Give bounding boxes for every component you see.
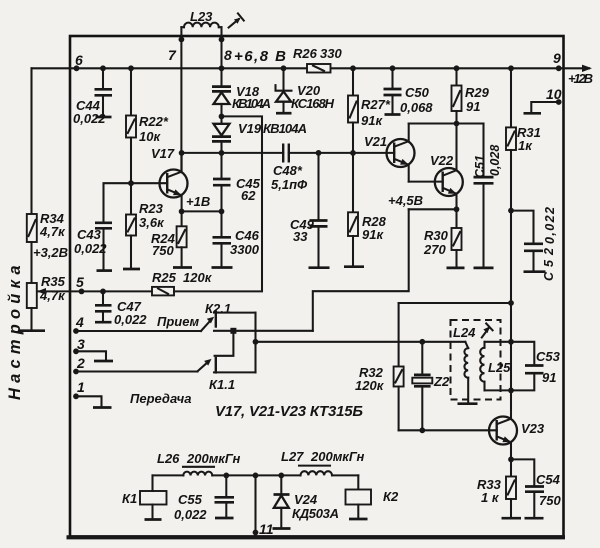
potentiometer R35 — [27, 283, 37, 308]
node jog junction — [230, 328, 236, 334]
wire V23 base line — [399, 429, 497, 431]
wire pin4 line — [76, 330, 201, 332]
node switch output — [253, 339, 259, 345]
svg-text:К1.1: К1.1 — [209, 377, 235, 392]
switch K2.1 arm — [201, 321, 211, 332]
svg-text:C48*: C48* — [273, 163, 303, 178]
svg-text:C51: C51 — [473, 155, 487, 178]
svg-text:КС168Н: КС168Н — [291, 96, 335, 111]
capacitor C52 — [511, 211, 534, 244]
svg-text:R35: R35 — [41, 274, 66, 289]
wire switch common vertical — [254, 313, 256, 373]
svg-text:0,022: 0,022 — [74, 241, 107, 256]
trimmer arrow L24 — [482, 328, 489, 338]
svg-text:V23: V23 — [521, 421, 545, 436]
wire receive path riser to V22 emitter — [313, 209, 409, 330]
node V22 emitter — [454, 206, 460, 212]
wire L25 bottom to tank node — [485, 389, 512, 391]
svg-text:C43: C43 — [77, 227, 102, 242]
pin 1 — [73, 393, 79, 399]
capacitor C55 — [225, 475, 227, 497]
svg-text:91к: 91к — [362, 227, 384, 242]
svg-text:+3,2В: +3,2В — [33, 245, 68, 260]
resistor R24 — [181, 211, 183, 226]
node R32 line junction — [508, 300, 514, 306]
svg-text:0,022: 0,022 — [174, 507, 207, 522]
transistor V23 — [489, 417, 517, 445]
node V21 base junction — [350, 150, 356, 156]
capacitor C46 — [220, 211, 222, 237]
transistor V17 — [160, 170, 188, 198]
node Z2 top — [419, 339, 425, 345]
wire R32 feed line — [399, 302, 511, 304]
svg-text:L27: L27 — [281, 449, 304, 464]
svg-text:+1В: +1В — [186, 194, 210, 209]
svg-text:200мкГн: 200мкГн — [310, 449, 365, 464]
resistor R22 — [128, 65, 134, 71]
svg-text:9: 9 — [553, 50, 561, 66]
wire switch output to L24 — [256, 341, 466, 343]
node tank top — [508, 339, 514, 345]
svg-text:0,028: 0,028 — [488, 145, 502, 176]
wire R25 to varicap junction riser — [174, 116, 262, 291]
svg-text:1: 1 — [77, 379, 85, 395]
trimmer arrow L23 — [229, 19, 239, 27]
svg-text:0,022: 0,022 — [114, 312, 147, 327]
wire R34-R35 — [30, 242, 32, 283]
wire collector line to C48 — [182, 152, 395, 154]
relay coil K1 — [140, 491, 167, 505]
svg-text:+6,8 В: +6,8 В — [234, 48, 286, 65]
svg-text:L25: L25 — [488, 360, 511, 375]
node Z2 bottom — [419, 427, 425, 433]
svg-text:2: 2 — [76, 355, 85, 371]
node R29/V22 collector — [454, 121, 460, 127]
svg-text:R29: R29 — [465, 85, 490, 100]
node C52 tap — [508, 208, 514, 214]
inductor L24 — [465, 342, 468, 348]
svg-text:0,068: 0,068 — [400, 100, 433, 115]
switch K1.1 arm — [198, 362, 208, 371]
resistor R23 — [130, 183, 132, 214]
capacitor C49 — [317, 153, 319, 220]
resistor R28 — [352, 153, 354, 212]
ground bar pin3 — [94, 360, 113, 363]
ground bar node10 — [524, 112, 542, 115]
wire node 11 drop — [254, 475, 256, 535]
pin 2 — [73, 369, 79, 375]
svg-text:КД503А: КД503А — [292, 506, 339, 521]
transistor V22 — [435, 168, 463, 196]
svg-text:11: 11 — [259, 521, 274, 537]
wire TX filter line — [153, 474, 359, 476]
svg-text:0,022: 0,022 — [543, 207, 557, 244]
svg-text:К2.1: К2.1 — [205, 301, 231, 316]
svg-text:КВ104А: КВ104А — [232, 96, 271, 111]
svg-text:R30: R30 — [424, 228, 449, 243]
pin 3 — [73, 348, 79, 354]
svg-text:+4,5В: +4,5В — [388, 193, 423, 208]
svg-text:4,7к: 4,7к — [39, 224, 66, 239]
svg-text:+12В: +12В — [568, 71, 593, 86]
node 8 bus junction — [219, 65, 225, 71]
node V17 base — [128, 180, 134, 186]
capacitor C45 — [219, 150, 225, 156]
shield box L24 L25 — [451, 320, 501, 400]
svg-text:750: 750 — [152, 243, 174, 258]
svg-text:3: 3 — [77, 336, 85, 352]
svg-text:0,022: 0,022 — [73, 111, 106, 126]
svg-text:7: 7 — [168, 47, 177, 63]
node 5 — [79, 289, 85, 295]
capacitor C44 — [100, 65, 106, 71]
svg-text:200мкГн: 200мкГн — [186, 451, 241, 466]
resistor R34 — [27, 214, 37, 242]
node tank bottom — [508, 388, 514, 394]
svg-text:V24: V24 — [294, 492, 318, 507]
wire pin2 line — [76, 370, 198, 372]
relay coil K2 — [357, 475, 359, 489]
node 9 — [556, 65, 562, 71]
transistor V21 — [387, 139, 415, 167]
capacitor C51 — [482, 124, 484, 177]
svg-text:1 к: 1 к — [481, 490, 500, 505]
wire R35 to ground — [30, 308, 32, 330]
svg-text:К2: К2 — [383, 489, 399, 504]
node 11 — [253, 530, 259, 536]
svg-text:91: 91 — [542, 370, 556, 385]
svg-text:6: 6 — [75, 52, 83, 68]
wire V21 collector line — [409, 122, 484, 124]
capacitor C43 — [95, 221, 112, 224]
svg-text:V17, V21-V23 КТ315Б: V17, V21-V23 КТ315Б — [215, 403, 363, 420]
zener V20 — [281, 65, 287, 71]
resistor R26 — [307, 64, 331, 73]
switch K2.1 contact tick — [215, 312, 217, 327]
capacitor C53 — [511, 342, 534, 365]
resistor R31 — [508, 65, 514, 71]
capacitor C54 — [511, 459, 534, 486]
diode V24 — [280, 475, 282, 494]
wire terminal7 column — [180, 27, 182, 172]
svg-text:КВ104А: КВ104А — [263, 121, 307, 136]
svg-text:62: 62 — [241, 188, 256, 203]
svg-text:Передача: Передача — [130, 391, 192, 406]
node V23 emitter — [508, 457, 514, 463]
+12V arrow — [582, 65, 592, 72]
svg-text:3300: 3300 — [230, 242, 260, 257]
capacitor C50 — [390, 65, 396, 71]
svg-text:91к: 91к — [361, 113, 383, 128]
svg-text:330: 330 — [320, 46, 342, 61]
node terminal 8 — [219, 37, 225, 43]
wire jog to K1.1 upper contact — [215, 331, 234, 356]
svg-text:L26: L26 — [157, 451, 180, 466]
svg-text:C54: C54 — [536, 472, 561, 487]
wire pin3 stub — [76, 351, 106, 360]
node 10 — [556, 99, 562, 105]
ground bar R35 — [18, 329, 45, 332]
wire node10 stub — [531, 102, 558, 112]
svg-text:4: 4 — [75, 314, 84, 330]
svg-text:5,1пФ: 5,1пФ — [271, 177, 308, 192]
svg-text:3,6к: 3,6к — [139, 215, 165, 230]
svg-text:R27*: R27* — [361, 97, 391, 112]
wire pin1 stub — [76, 396, 102, 406]
capacitor C48 — [282, 145, 284, 162]
node 6 — [74, 65, 80, 71]
wire base to C43 — [104, 183, 168, 222]
resistor R29 — [454, 65, 460, 71]
inductor L26 — [183, 472, 212, 476]
svg-text:R22*: R22* — [139, 114, 169, 129]
wire terminal8 column — [220, 27, 222, 86]
svg-text:C50: C50 — [405, 85, 430, 100]
wire K2.1 upper contact line — [214, 312, 256, 314]
svg-text:1к: 1к — [518, 138, 533, 153]
outer border frame — [70, 36, 564, 537]
svg-text:120к: 120к — [183, 270, 213, 285]
inductor L25 — [483, 342, 485, 348]
svg-text:C46: C46 — [235, 228, 260, 243]
varicap V19 — [220, 116, 222, 123]
wire K2.1 lower contact line — [214, 330, 313, 332]
svg-text:R25: R25 — [152, 270, 177, 285]
node V24 tap — [278, 473, 284, 479]
wire emitter return line — [409, 208, 457, 210]
svg-text:К1: К1 — [122, 491, 137, 506]
wire node5 wiper line with arrow into R35 — [37, 290, 152, 292]
svg-text:C53: C53 — [536, 349, 561, 364]
svg-text:10: 10 — [546, 86, 562, 102]
svg-text:V19: V19 — [238, 121, 262, 136]
node 11 tap — [253, 473, 259, 479]
node C45/C46 tap — [219, 209, 225, 215]
node V17 emitter — [179, 209, 185, 215]
node varicap junction — [219, 114, 225, 120]
svg-text:V17: V17 — [151, 146, 175, 161]
svg-text:C55: C55 — [178, 492, 203, 507]
resistor R27 — [350, 65, 356, 71]
wire +6.8V/+12V top bus — [32, 67, 590, 69]
svg-text:750: 750 — [539, 493, 561, 508]
svg-text:10к: 10к — [139, 129, 161, 144]
wire V21 emitter to V22 base — [409, 181, 443, 183]
resistor R25 — [152, 287, 174, 296]
resistor R33 — [510, 459, 512, 476]
crystal Z2 — [421, 342, 423, 375]
node terminal 7 — [179, 37, 185, 43]
svg-text:Прием: Прием — [157, 314, 199, 329]
svg-text:L24: L24 — [453, 325, 476, 340]
wire L25 top to tank node — [485, 341, 512, 343]
svg-text:270: 270 — [423, 242, 446, 257]
wire K1.1 lower contact line — [214, 371, 256, 373]
node V17 collector — [179, 150, 185, 156]
svg-text:8: 8 — [224, 47, 232, 63]
wire R31 feed vertical — [510, 211, 512, 419]
svg-text:V22: V22 — [430, 153, 454, 168]
wire emitter to C45C46 tap — [182, 210, 222, 212]
svg-text:Настройка: Настройка — [6, 260, 24, 400]
wire left tuning branch — [30, 68, 32, 214]
svg-text:L23: L23 — [190, 9, 213, 24]
inductor L27 — [301, 471, 333, 475]
resistor R30 — [455, 209, 457, 228]
node C55 tap — [223, 473, 229, 479]
capacitor C47 — [100, 289, 106, 295]
varicap V18 — [212, 85, 231, 88]
svg-text:33: 33 — [293, 229, 308, 244]
node C49 junction — [316, 150, 322, 156]
svg-text:C52: C52 — [542, 248, 556, 281]
svg-text:120к: 120к — [355, 378, 385, 393]
resistor R32 — [398, 303, 400, 367]
ground bar pin1 — [93, 406, 112, 409]
svg-text:V21: V21 — [364, 134, 387, 149]
svg-text:91: 91 — [466, 99, 480, 114]
svg-text:5: 5 — [76, 274, 84, 290]
pin 4 — [73, 328, 79, 334]
switch K1.1 contact tick — [215, 358, 217, 372]
svg-text:Z2: Z2 — [433, 374, 450, 389]
svg-text:R26: R26 — [293, 46, 318, 61]
svg-text:R23: R23 — [139, 201, 164, 216]
